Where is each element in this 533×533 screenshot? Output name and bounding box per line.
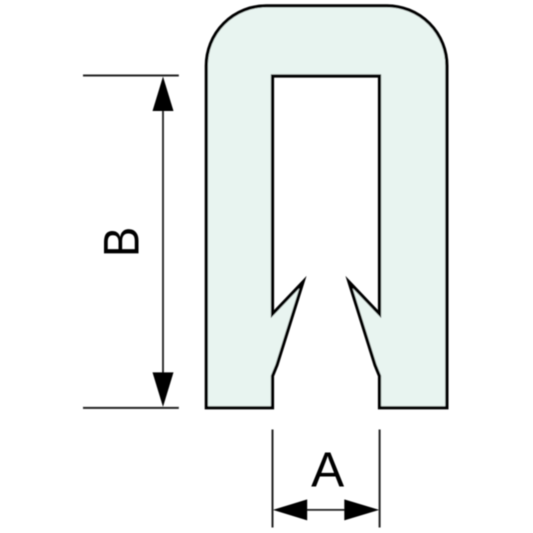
svg-text:B: B bbox=[95, 227, 150, 257]
svg-text:A: A bbox=[311, 442, 344, 497]
